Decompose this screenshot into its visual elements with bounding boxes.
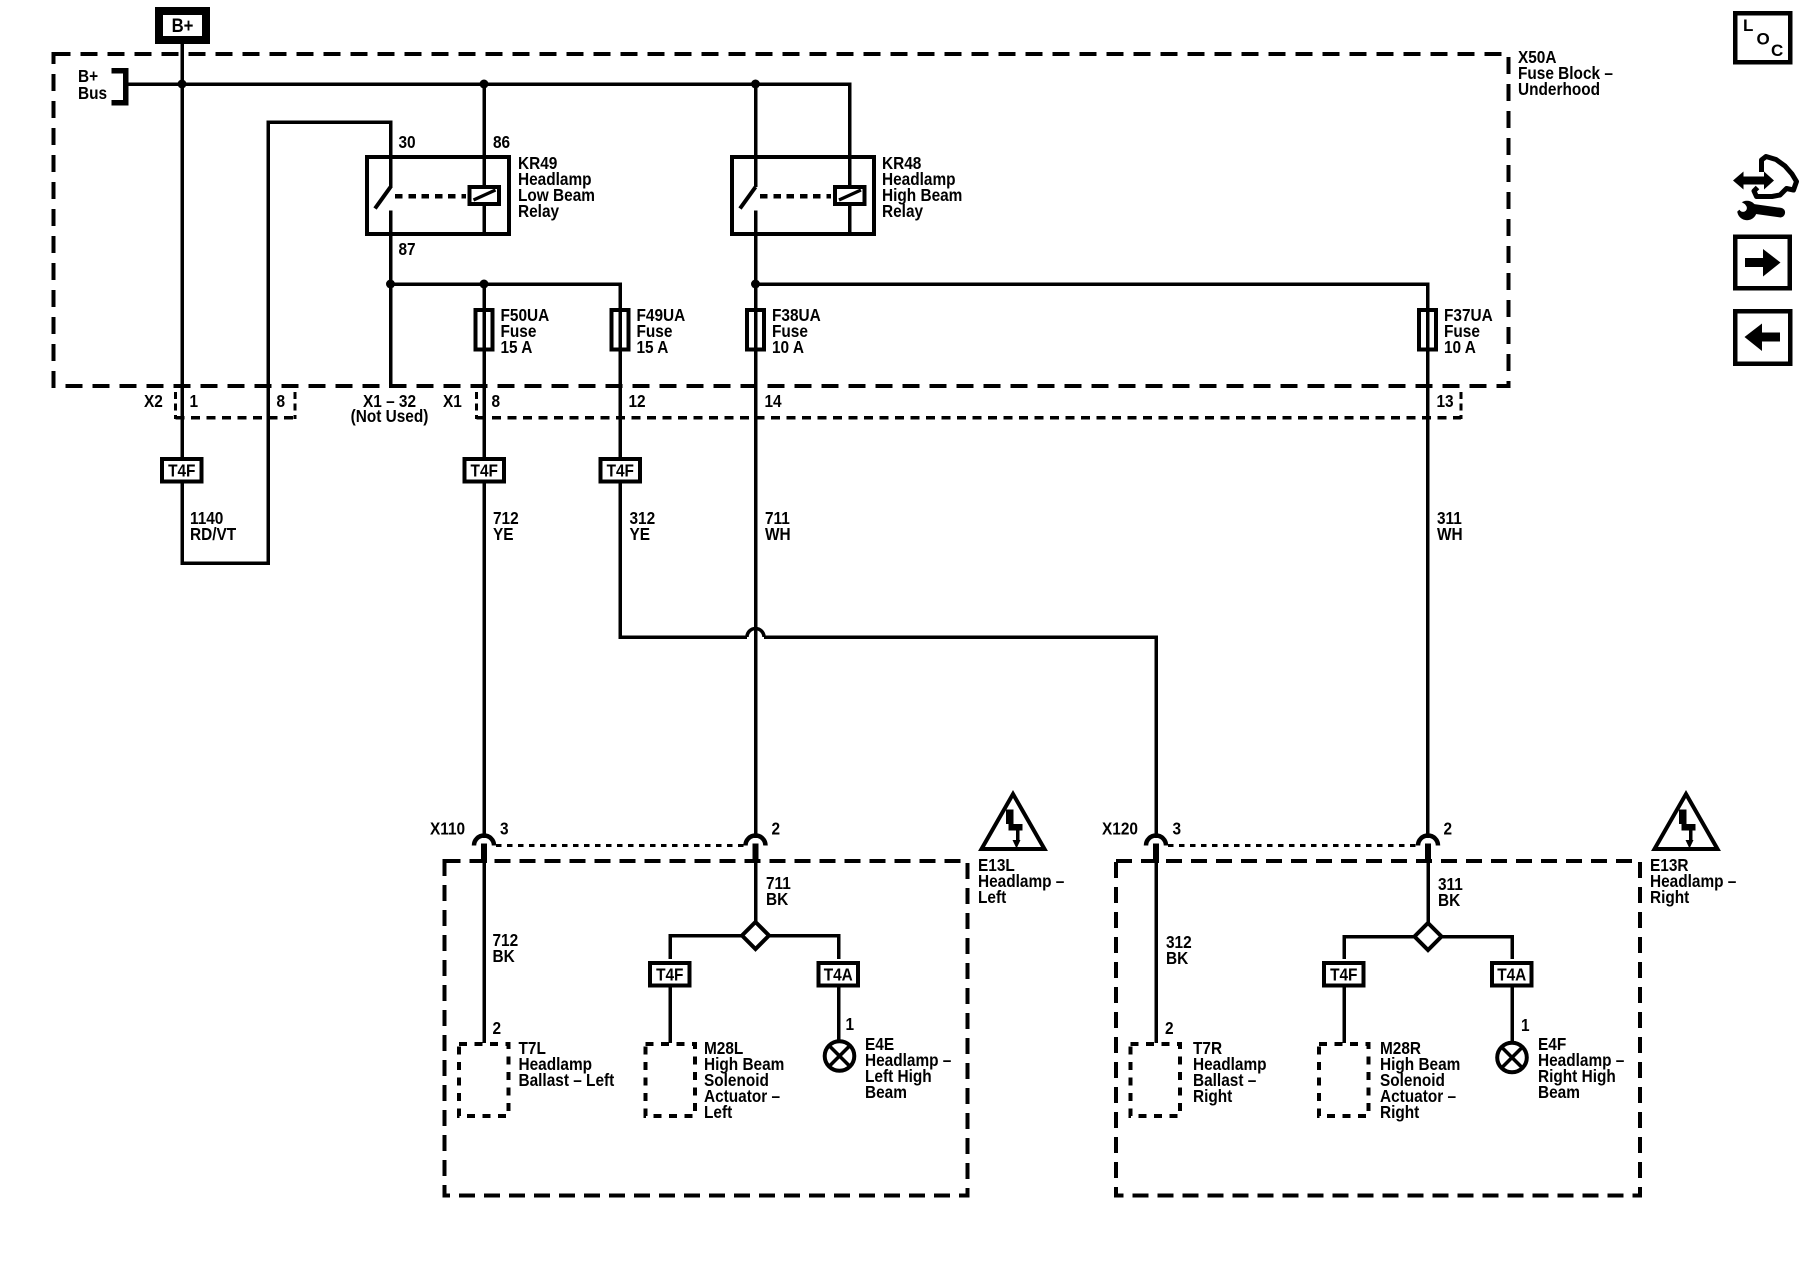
KR49 pin 30 label: [399, 133, 416, 152]
svg-text:3: 3: [500, 820, 509, 839]
svg-text:X120: X120: [1102, 820, 1138, 839]
splice diamond (left): [742, 922, 769, 949]
component T7R Headlamp Ballast - Right dashed box: [1131, 1044, 1181, 1116]
splice pack T4A (E13R): [1492, 963, 1532, 986]
splice diamond (right): [1415, 923, 1442, 950]
svg-text:87: 87: [399, 240, 416, 259]
junction KR48 87 bus right: [751, 280, 760, 289]
svg-text:2: 2: [493, 1019, 502, 1038]
label E13R Headlamp - Right: [1650, 856, 1736, 907]
connector X2 row: [176, 392, 296, 419]
svg-text:2: 2: [772, 820, 781, 839]
wire loop X2-1 to X2-8 to KR49 pin 30 (1140 circuit): [182, 122, 391, 563]
svg-text:T4A: T4A: [1497, 966, 1526, 985]
fuse F37UA 10 A: [1419, 310, 1436, 350]
X2 pin 8 label: [277, 392, 286, 411]
svg-text:X2: X2: [144, 392, 163, 411]
label wire 312 BK: [1166, 933, 1192, 968]
svg-text:86: 86: [493, 133, 510, 152]
svg-text:RD/VT: RD/VT: [190, 525, 236, 544]
label wire 711 WH: [765, 509, 791, 544]
label X110: [430, 820, 465, 839]
wire KR48 pin 87 output: [756, 236, 1430, 284]
T7R pin 2 label: [1165, 1019, 1174, 1038]
label X1 - 32 (Not Used): [351, 392, 429, 426]
E4F pin 1 label: [1521, 1016, 1530, 1035]
B+ power terminal: [159, 11, 206, 40]
label M28R High Beam Solenoid Actuator - Right: [1380, 1039, 1460, 1122]
X120 pin 2 label: [1444, 820, 1453, 839]
component T7L Headlamp Ballast - Left dashed box: [459, 1044, 509, 1116]
warning triangle (left): [982, 794, 1045, 849]
label M28L High Beam Solenoid Actuator - Left: [704, 1039, 784, 1122]
svg-text:O: O: [1757, 30, 1770, 49]
label T7L Headlamp Ballast - Left: [519, 1039, 615, 1090]
svg-text:Relay: Relay: [518, 202, 560, 221]
label X50A Fuse Block - Underhood: [1518, 48, 1613, 99]
svg-text:X110: X110: [430, 820, 465, 839]
svg-text:YE: YE: [630, 525, 651, 544]
wire 712 BK inside E13L to T7L: [482, 860, 486, 1043]
component M28R High Beam Solenoid Actuator - Right dashed box: [1319, 1044, 1369, 1116]
svg-text:C: C: [1771, 41, 1783, 60]
svg-text:15 A: 15 A: [637, 338, 669, 357]
wire diamond to T4F (right): [1344, 937, 1415, 1044]
svg-text:BK: BK: [1438, 891, 1460, 910]
label wire 712 BK: [493, 931, 519, 966]
svg-text:X1: X1: [443, 392, 462, 411]
wire 312 BK inside E13R to T7R: [1154, 860, 1158, 1043]
label F37UA Fuse 10 A: [1444, 306, 1493, 357]
lamp E4E Headlamp - Left High Beam: [825, 1041, 855, 1071]
connector X120: [1146, 836, 1438, 864]
X1 pin 8 label: [492, 392, 501, 411]
svg-text:10 A: 10 A: [1444, 338, 1476, 357]
svg-text:1: 1: [846, 1015, 855, 1034]
label X1: [443, 392, 462, 411]
label F38UA Fuse 10 A: [772, 306, 821, 357]
E4E pin 1 label: [846, 1015, 855, 1034]
svg-text:YE: YE: [493, 525, 514, 544]
label wire 1140 RD/VT: [190, 509, 236, 544]
svg-text:15 A: 15 A: [501, 338, 533, 357]
wire F49UA branch down to X1-12: [618, 284, 622, 459]
wire KR48 pin 30 feed: [754, 84, 758, 187]
svg-text:1: 1: [190, 392, 199, 411]
junction F50UA tap: [480, 280, 489, 289]
label E13L Headlamp - Left: [978, 856, 1064, 907]
label E4E Headlamp - Left High Beam: [865, 1035, 951, 1102]
wire 312 YE down, across to X120-3 (with hop over 711): [620, 481, 1156, 838]
wire KR48 coil feed (pin 86): [848, 82, 852, 234]
warning triangle (right): [1655, 794, 1718, 849]
wire 712 YE down to X110-3: [482, 481, 486, 838]
fuse F38UA 10 A: [747, 310, 764, 350]
wire F38UA branch down (711 WH) to X110-2: [754, 284, 758, 838]
svg-text:L: L: [1743, 16, 1753, 35]
svg-text:14: 14: [765, 392, 783, 411]
connector X1 row: [477, 392, 1462, 419]
label wire 711 BK: [766, 874, 791, 909]
X1 pin 14 label: [765, 392, 783, 411]
svg-text:Right: Right: [1193, 1087, 1233, 1106]
label F49UA Fuse 15 A: [637, 306, 686, 357]
wire X1-32 not used stub: [389, 284, 393, 388]
label E4F Headlamp - Right High Beam: [1538, 1035, 1624, 1102]
component E13L Headlamp - Left dashed box: [445, 861, 968, 1196]
wire B+ feed vertical: [180, 44, 184, 459]
svg-text:Left: Left: [704, 1103, 733, 1122]
wire F37UA branch down (311 WH) to X120-2: [1426, 284, 1430, 838]
svg-text:3: 3: [1173, 820, 1182, 839]
svg-text:BK: BK: [1166, 949, 1188, 968]
svg-text:8: 8: [277, 392, 286, 411]
svg-text:Right: Right: [1380, 1103, 1420, 1122]
wire 311 BK inside E13R to splice diamond: [1426, 860, 1430, 925]
splice pack T4F (E13L): [650, 963, 690, 986]
junction KR49 87 bus left: [386, 280, 395, 289]
svg-text:Ballast – Left: Ballast – Left: [519, 1071, 615, 1090]
back arrow box: [1735, 311, 1790, 364]
junction B+ bus / B+ feed: [178, 80, 187, 89]
svg-text:1: 1: [1521, 1016, 1530, 1035]
relay KR48 Headlamp High Beam Relay: [732, 157, 874, 236]
forward arrow box: [1735, 237, 1790, 289]
T7L pin 2 label: [493, 1019, 502, 1038]
label T7R Headlamp Ballast - Right: [1193, 1039, 1267, 1106]
svg-text:WH: WH: [1437, 525, 1463, 544]
X120 pin 3 label: [1173, 820, 1182, 839]
svg-text:T4A: T4A: [824, 966, 853, 985]
node B+ Bus tap symbol: [112, 68, 126, 105]
label wire 712 YE: [493, 509, 519, 544]
X110 pin 3 label: [500, 820, 509, 839]
svg-text:13: 13: [1437, 392, 1454, 411]
wire diamond to T4A (right): [1442, 937, 1513, 1043]
splice pack T4F (712 circuit): [465, 459, 505, 482]
svg-text:30: 30: [399, 133, 416, 152]
svg-text:Beam: Beam: [865, 1083, 907, 1102]
svg-text:(Not Used): (Not Used): [351, 407, 429, 426]
label KR49 Headlamp Low Beam Relay: [518, 154, 595, 221]
X110 pin 2 label: [772, 820, 781, 839]
junction B+ bus / KR48 pin 30 feed: [751, 80, 760, 89]
label wire 312 YE: [630, 509, 656, 544]
svg-text:WH: WH: [765, 525, 791, 544]
svg-text:12: 12: [629, 392, 646, 411]
relay KR49 Headlamp Low Beam Relay: [367, 157, 509, 236]
wire B+ bus horizontal: [128, 82, 851, 86]
wire diamond to T4A (left): [769, 936, 839, 1042]
splice pack T4F (1140 circuit): [162, 459, 202, 482]
X2 pin 1 label: [190, 392, 199, 411]
wire F50UA branch down to X1-8: [482, 284, 486, 459]
svg-text:Relay: Relay: [882, 202, 924, 221]
wire diamond to T4F (left): [670, 936, 742, 1044]
svg-text:T4F: T4F: [656, 966, 683, 985]
svg-text:2: 2: [1165, 1019, 1174, 1038]
label X120: [1102, 820, 1138, 839]
svg-text:Left: Left: [978, 888, 1007, 907]
svg-text:T4F: T4F: [607, 462, 634, 481]
lamp E4F Headlamp - Right High Beam: [1497, 1043, 1527, 1073]
svg-text:8: 8: [492, 392, 501, 411]
svg-text:2: 2: [1444, 820, 1453, 839]
fuse F50UA 15 A: [476, 310, 493, 350]
KR49 pin 87 label: [399, 240, 416, 259]
svg-text:10 A: 10 A: [772, 338, 804, 357]
junction B+ bus / KR49 coil feed: [480, 80, 489, 89]
svg-text:T4F: T4F: [168, 462, 195, 481]
label wire 311 BK: [1438, 875, 1463, 910]
fuse block X50A dashed outline: [54, 54, 1509, 386]
navigation icon (double arrow with wrench): [1731, 157, 1797, 221]
wire 711 BK inside E13L to splice diamond: [754, 860, 758, 924]
label wire 311 WH: [1437, 509, 1463, 544]
label X2: [144, 392, 163, 411]
splice pack T4F (E13R): [1324, 963, 1364, 986]
wire KR49 coil feed (pin 86): [482, 84, 486, 234]
svg-text:BK: BK: [766, 890, 788, 909]
label KR48 Headlamp High Beam Relay: [882, 154, 962, 221]
label B+ Bus: [78, 67, 107, 103]
splice pack T4A (E13L): [819, 963, 859, 986]
LOC reference box: [1735, 13, 1790, 62]
wire KR49 pin 87 output: [391, 236, 622, 284]
svg-text:Beam: Beam: [1538, 1083, 1580, 1102]
fuse F49UA 15 A: [612, 310, 629, 350]
label F50UA Fuse 15 A: [501, 306, 550, 357]
svg-text:T4F: T4F: [1330, 966, 1357, 985]
svg-text:BK: BK: [493, 947, 515, 966]
connector X110: [474, 836, 766, 864]
svg-text:T4F: T4F: [471, 462, 498, 481]
svg-text:Right: Right: [1650, 888, 1690, 907]
svg-text:Underhood: Underhood: [1518, 80, 1600, 99]
splice pack T4F (312 circuit): [601, 459, 641, 482]
X1 pin 13 label: [1437, 392, 1454, 411]
component E13R Headlamp - Right dashed box: [1116, 861, 1640, 1196]
svg-text:B+: B+: [172, 15, 194, 36]
component M28L High Beam Solenoid Actuator - Left dashed box: [646, 1044, 696, 1116]
KR49 pin 86 label: [493, 133, 510, 152]
X1 pin 12 label: [629, 392, 646, 411]
svg-text:Bus: Bus: [78, 84, 107, 103]
